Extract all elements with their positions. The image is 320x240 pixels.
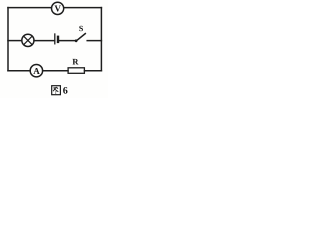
wire switch to right edge: [87, 40, 101, 42]
caption: character 图 drawn as strokes: [52, 86, 61, 95]
wire top side, left of voltmeter: [8, 7, 51, 9]
label S (switch): [79, 26, 83, 31]
wire lamp to battery: [34, 40, 55, 42]
label A (ammeter): [33, 68, 39, 74]
lamp cross stroke 1: [24, 36, 32, 44]
battery short plate (-): [57, 37, 59, 42]
switch lever: [76, 34, 85, 41]
wire right edge: [100, 8, 102, 71]
wire battery to switch: [59, 40, 75, 42]
lamp cross stroke 2: [24, 36, 32, 44]
resistor R body: [68, 68, 84, 74]
lamp (bulb): [22, 34, 34, 46]
wire resistor to right corner: [85, 70, 102, 72]
wire top side, right of voltmeter: [64, 7, 102, 9]
wire bottom side, left corner to ammeter: [8, 70, 30, 72]
label R (resistor): [72, 59, 78, 65]
ammeter A: [30, 65, 42, 77]
switch pivot contact dot: [75, 39, 78, 42]
battery long plate (+): [54, 34, 56, 44]
wire left edge: [7, 8, 9, 71]
label V (voltmeter): [55, 6, 61, 12]
wire ammeter to resistor: [43, 70, 68, 72]
wire middle branch, left edge to lamp: [8, 40, 22, 42]
voltmeter V: [52, 2, 64, 14]
caption digit 6: [63, 87, 67, 94]
